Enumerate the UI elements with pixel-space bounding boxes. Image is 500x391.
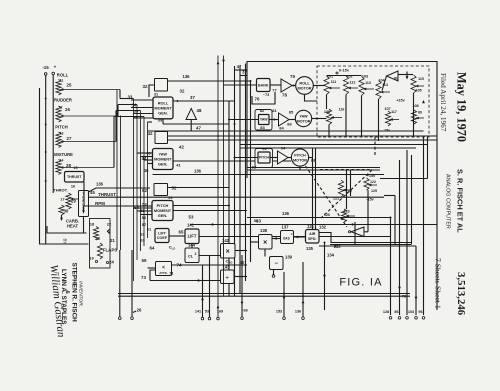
svg-text:48: 48 bbox=[197, 108, 202, 113]
wire long vertical 218 bbox=[217, 56, 219, 318]
wire roll mg input 35 bbox=[134, 113, 154, 115]
box oas 137 bbox=[281, 231, 294, 244]
svg-text:83: 83 bbox=[260, 125, 265, 130]
svg-text:SPD.: SPD. bbox=[308, 237, 317, 241]
wire pmg inputs bbox=[134, 207, 153, 209]
wire center bus 2 bbox=[234, 66, 236, 296]
svg-text:136: 136 bbox=[96, 182, 104, 187]
wire wiper 124 bbox=[343, 189, 352, 191]
svg-text:2: 2 bbox=[195, 252, 197, 256]
svg-text:107: 107 bbox=[384, 107, 390, 111]
wire 32 feedback bbox=[148, 91, 150, 97]
svg-text:53: 53 bbox=[142, 202, 147, 207]
wire roll mg input 36 bbox=[134, 117, 154, 119]
svg-text:0-15v: 0-15v bbox=[339, 68, 350, 73]
box attack limiter 71 bbox=[156, 262, 172, 276]
motor pitch 95 bbox=[291, 149, 308, 166]
wire 47 top stub bbox=[235, 69, 248, 71]
svg-text:THRUST: THRUST bbox=[67, 175, 82, 179]
svg-text:71: 71 bbox=[169, 271, 174, 276]
wire bus y244 right bbox=[330, 244, 412, 246]
svg-text:OAS: OAS bbox=[283, 237, 290, 241]
wire right bus 8 bbox=[427, 137, 429, 179]
box pitch servo enclosure bbox=[255, 149, 273, 168]
svg-text:78: 78 bbox=[282, 93, 287, 98]
svg-text:136: 136 bbox=[295, 310, 301, 314]
svg-text:103: 103 bbox=[408, 310, 414, 314]
svg-text:56: 56 bbox=[142, 215, 147, 220]
terminal t136 bbox=[302, 317, 305, 320]
svg-text:RUDDER: RUDDER bbox=[54, 98, 72, 103]
terminal tr1 bbox=[389, 317, 392, 320]
svg-text:139: 139 bbox=[285, 255, 293, 260]
svg-text:ATTK.: ATTK. bbox=[159, 271, 168, 275]
resistor flaps pot 23 bbox=[93, 227, 98, 241]
svg-text:68: 68 bbox=[243, 309, 247, 313]
box lift coef 64 bbox=[155, 229, 169, 243]
wire wiper 106 bbox=[331, 117, 342, 119]
wire pot106 bottom drop bbox=[328, 125, 330, 138]
box thrust 15 bbox=[65, 172, 85, 183]
svg-text:134: 134 bbox=[327, 253, 335, 258]
wire airspd to oas bbox=[294, 236, 306, 238]
box pitch 91 bbox=[258, 152, 270, 163]
box feedback 42 bbox=[155, 132, 168, 144]
wire pot104 bottom drop bbox=[378, 99, 380, 141]
wire 47 bus bbox=[148, 130, 424, 132]
svg-text:×: × bbox=[226, 249, 230, 256]
svg-text:111: 111 bbox=[331, 80, 337, 84]
box roll moment gen bbox=[153, 97, 173, 119]
terminal under 139 bbox=[272, 275, 275, 278]
wire lower right vertical a bbox=[346, 170, 348, 209]
resistor pot 103 bbox=[359, 77, 364, 96]
svg-text:31: 31 bbox=[154, 93, 158, 97]
wire 136 mid bus bbox=[153, 174, 385, 176]
wire dashed diagonal 1 bbox=[306, 166, 348, 227]
wire bus y137 bbox=[168, 135, 438, 137]
wire yaw mg input d bbox=[148, 163, 153, 165]
wire bus y144 bbox=[240, 144, 428, 146]
wire pot30 ground arrow bbox=[61, 215, 63, 219]
svg-text:YAW: YAW bbox=[299, 115, 308, 119]
wire 136 terminal line bbox=[302, 262, 304, 317]
svg-text:LIFT: LIFT bbox=[188, 234, 197, 239]
box pitch moment gen bbox=[152, 201, 173, 221]
wire yaw mg input a bbox=[137, 152, 153, 154]
svg-text:123: 123 bbox=[343, 210, 349, 214]
svg-text:106: 106 bbox=[324, 110, 330, 114]
motor roll 79 bbox=[296, 77, 314, 95]
box yaw 82 bbox=[259, 115, 270, 125]
svg-text:PITCH: PITCH bbox=[259, 156, 270, 160]
svg-text:153: 153 bbox=[276, 310, 282, 314]
box right outer enclosure bbox=[247, 62, 437, 311]
wire 136 top bus bbox=[168, 80, 251, 82]
svg-text:THRUST: THRUST bbox=[98, 192, 116, 197]
svg-text:105: 105 bbox=[415, 89, 421, 93]
wire wiper 101 bbox=[329, 87, 340, 89]
wire 133 line bbox=[319, 245, 416, 247]
wire yaw mg input c bbox=[144, 159, 153, 161]
wire control vertical b bbox=[120, 116, 122, 251]
wire throttle wiper bbox=[71, 198, 79, 200]
svg-text:STEPHEN R. FISCH: STEPHEN R. FISCH bbox=[71, 263, 78, 323]
svg-text:GEN.: GEN. bbox=[158, 110, 168, 115]
wire bank input bbox=[224, 84, 257, 86]
svg-text:MOTOR: MOTOR bbox=[293, 158, 307, 162]
svg-text:86: 86 bbox=[287, 122, 292, 127]
svg-text:84: 84 bbox=[279, 126, 284, 131]
svg-text:116: 116 bbox=[339, 108, 345, 112]
svg-text:53: 53 bbox=[254, 218, 259, 223]
svg-text:47: 47 bbox=[196, 126, 201, 131]
svg-text:25: 25 bbox=[67, 83, 72, 88]
svg-text:52: 52 bbox=[142, 188, 147, 193]
box lift 141 bbox=[185, 229, 199, 244]
svg-text:26: 26 bbox=[65, 107, 70, 112]
wire roll motor bottom stub bbox=[305, 94, 318, 101]
svg-text:42: 42 bbox=[179, 145, 184, 150]
op-amp 48 triangle up bbox=[186, 109, 197, 120]
wire roll mg bottom bbox=[162, 119, 164, 124]
wire center bus 1 bbox=[228, 101, 230, 296]
wire bottom bus 2 bbox=[118, 295, 410, 297]
wire right supply rail bbox=[52, 75, 54, 193]
svg-text:113: 113 bbox=[365, 81, 371, 85]
wire pitch motor dashed start stub bbox=[299, 166, 301, 170]
svg-text:17: 17 bbox=[60, 198, 64, 202]
resistor pot 102 bbox=[343, 76, 348, 95]
svg-text:138: 138 bbox=[260, 228, 268, 233]
svg-text:115: 115 bbox=[418, 77, 424, 81]
svg-text:22: 22 bbox=[107, 222, 112, 227]
svg-text:125: 125 bbox=[371, 189, 377, 193]
wire arrow down symbol bbox=[406, 72, 408, 79]
svg-text:46: 46 bbox=[144, 168, 149, 173]
terminal t153 bbox=[283, 317, 286, 320]
terminal t26a bbox=[119, 317, 122, 320]
wire control vertical a bbox=[116, 90, 118, 250]
svg-text:53: 53 bbox=[205, 310, 209, 314]
svg-text:+: + bbox=[54, 65, 57, 70]
svg-text:MOTOR: MOTOR bbox=[296, 119, 310, 123]
wire right bus 3 bbox=[399, 160, 401, 315]
wire 53 bus line bbox=[190, 224, 437, 226]
svg-text:94: 94 bbox=[281, 146, 286, 151]
wire bus y170 bbox=[247, 169, 380, 171]
svg-text:26: 26 bbox=[137, 308, 142, 313]
wire right bus 4 bbox=[406, 150, 408, 315]
svg-text:36: 36 bbox=[134, 115, 139, 120]
svg-text:128: 128 bbox=[383, 310, 389, 314]
svg-text:39: 39 bbox=[158, 118, 163, 123]
wire roll motor to pots bbox=[313, 85, 325, 87]
op-amp 94 bbox=[278, 151, 289, 164]
wire bus y178 bbox=[380, 178, 428, 180]
wire mixture wiper to bus bbox=[61, 167, 114, 169]
resistor flaps pot 19 bbox=[97, 243, 102, 259]
resistor pot 30 bbox=[59, 205, 64, 215]
wire bank to amp bbox=[270, 84, 281, 86]
terminal flaps a bbox=[95, 260, 97, 262]
svg-text:CL: CL bbox=[188, 254, 194, 259]
svg-text:92: 92 bbox=[252, 165, 257, 170]
wire lift coef out bbox=[169, 235, 185, 237]
svg-text:73: 73 bbox=[141, 275, 146, 280]
svg-text:89: 89 bbox=[418, 111, 422, 115]
wire 136 line bbox=[89, 188, 151, 192]
op-amp output left bbox=[351, 227, 364, 237]
svg-text:3,513,246: 3,513,246 bbox=[455, 272, 467, 316]
svg-text:MIXTURE: MIXTURE bbox=[54, 152, 73, 157]
wire dashed top edge bbox=[320, 169, 371, 171]
wire roll mg input 34 bbox=[131, 107, 153, 109]
resistor pot 105 bbox=[411, 75, 416, 93]
wire right bus 6 bbox=[415, 246, 417, 315]
svg-text:ROLL: ROLL bbox=[57, 73, 69, 78]
svg-text:LIFT: LIFT bbox=[158, 231, 167, 235]
svg-text:BY: BY bbox=[63, 239, 68, 245]
wire pitch motor right stub bbox=[309, 157, 313, 159]
wire bank loop 76 bbox=[252, 92, 275, 104]
wire flaps wiper 21 bbox=[107, 232, 110, 235]
svg-text:-15v: -15v bbox=[383, 129, 391, 133]
wire attk input bbox=[148, 267, 156, 269]
svg-text:23: 23 bbox=[95, 236, 100, 241]
svg-text:ROLL: ROLL bbox=[299, 82, 310, 86]
svg-text:~73: ~73 bbox=[263, 93, 269, 97]
svg-text:91: 91 bbox=[262, 146, 267, 151]
wire lift out bbox=[199, 236, 391, 238]
wire pot bank top rail bbox=[327, 75, 362, 77]
wire wiper 104 bbox=[381, 91, 390, 93]
wire lift to cl2 bbox=[191, 244, 193, 249]
wire wiper 108 bbox=[416, 117, 424, 119]
wire bus branch 47 top bbox=[148, 121, 153, 123]
svg-text:126: 126 bbox=[324, 213, 330, 217]
wire pmg out bbox=[173, 210, 247, 212]
op-amp 84 bbox=[279, 113, 290, 126]
wire attk out 74 bbox=[172, 264, 248, 266]
svg-text:BANK: BANK bbox=[258, 83, 269, 87]
svg-text:GEN.: GEN. bbox=[158, 161, 168, 166]
wire bus y141 bbox=[168, 139, 438, 141]
wire thrust45 down bbox=[83, 217, 85, 234]
box bank 73 bbox=[257, 79, 271, 92]
wire pot105 bottom drop bbox=[413, 93, 415, 138]
wire amp99 input diagonal bbox=[382, 76, 387, 91]
box dashed pot bank bbox=[317, 66, 429, 137]
svg-text:14: 14 bbox=[60, 159, 64, 163]
wire yaw motor right stub bbox=[312, 118, 327, 120]
svg-text:136: 136 bbox=[194, 169, 202, 174]
box cl2 144 bbox=[185, 248, 199, 263]
terminal tr4 bbox=[415, 317, 418, 320]
wire right bus 5 bbox=[411, 155, 413, 244]
svg-text:62: 62 bbox=[140, 232, 145, 237]
wire 52 box out bbox=[168, 187, 230, 189]
terminal t141 bbox=[201, 317, 204, 320]
svg-text:65: 65 bbox=[179, 230, 184, 235]
svg-text:FIG. IA: FIG. IA bbox=[339, 277, 382, 289]
wire lower right vertical c bbox=[354, 222, 356, 245]
wire thrust bus bbox=[89, 196, 385, 198]
terminal t26b bbox=[131, 317, 134, 320]
wire wiper 123 bbox=[346, 215, 355, 217]
box thrust servo 45 vertical bbox=[79, 191, 89, 217]
svg-text:76: 76 bbox=[255, 97, 260, 102]
wire yaw input bbox=[229, 119, 259, 121]
wire 138 down bbox=[264, 249, 266, 257]
svg-text:136: 136 bbox=[282, 211, 290, 216]
wire amp to roll motor bbox=[292, 85, 296, 87]
resistor pot 107 bbox=[385, 111, 390, 126]
svg-text:117: 117 bbox=[391, 110, 397, 114]
svg-text:16: 16 bbox=[71, 185, 75, 189]
wire vertical pair a bbox=[312, 148, 314, 230]
svg-text:THROT.: THROT. bbox=[53, 188, 67, 193]
svg-text:×: × bbox=[263, 240, 267, 247]
svg-text:18: 18 bbox=[90, 222, 95, 227]
terminal right rail bbox=[52, 72, 55, 75]
wire 37 top stub bbox=[240, 75, 247, 77]
svg-text:May 19, 1970: May 19, 1970 bbox=[455, 72, 469, 142]
wire 134 vertical bbox=[324, 243, 326, 311]
svg-text:S. R. FISCH ET AL: S. R. FISCH ET AL bbox=[456, 169, 465, 233]
svg-text:85: 85 bbox=[289, 110, 294, 115]
wire pitch to amp bbox=[270, 157, 278, 159]
wire pmg out 53 bbox=[173, 205, 229, 207]
wire right bus 1 bbox=[390, 225, 392, 315]
svg-text:19: 19 bbox=[89, 256, 94, 261]
wire center bus 4 bbox=[245, 64, 247, 282]
svg-text:+15v: +15v bbox=[367, 174, 376, 178]
terminal tr3 bbox=[406, 317, 409, 320]
svg-text:27: 27 bbox=[67, 136, 72, 141]
resistor pot 124 bbox=[338, 180, 343, 197]
svg-text:PITCH: PITCH bbox=[55, 125, 68, 130]
wire left terminal lines bbox=[119, 250, 121, 317]
op-amp 99 left bbox=[387, 71, 399, 81]
wire bus y148 bbox=[240, 147, 416, 149]
svg-text:37: 37 bbox=[190, 95, 195, 100]
wire long vertical 223 bbox=[223, 56, 225, 297]
svg-text:RPM: RPM bbox=[95, 201, 105, 206]
terminal tr2 bbox=[398, 317, 401, 320]
wire left supply rail bbox=[45, 75, 47, 244]
box subtractor 139 bbox=[270, 257, 284, 270]
svg-text:41: 41 bbox=[176, 163, 181, 168]
box feedback 32 bbox=[155, 79, 168, 92]
wire dashed diagonal 2 bbox=[321, 170, 372, 218]
svg-text:135: 135 bbox=[306, 246, 314, 251]
junction dots various bbox=[234, 123, 236, 125]
svg-text:7 Sheets-Sheet 1: 7 Sheets-Sheet 1 bbox=[434, 258, 443, 309]
wire bus y167 bbox=[247, 167, 380, 169]
wire x142 out stub bbox=[235, 250, 247, 252]
svg-text:PITCH: PITCH bbox=[294, 154, 306, 158]
svg-text:77: 77 bbox=[272, 88, 277, 93]
wire wiper 102 bbox=[348, 87, 358, 89]
svg-text:−: − bbox=[274, 261, 278, 267]
svg-text:136: 136 bbox=[183, 74, 191, 79]
wire 139 stub bbox=[273, 270, 275, 275]
svg-text:44: 44 bbox=[142, 156, 147, 161]
svg-text:YAW: YAW bbox=[260, 118, 268, 122]
svg-text:141: 141 bbox=[195, 310, 201, 314]
wire yaw mg input b bbox=[141, 156, 153, 158]
wire wiper 107 bbox=[390, 119, 399, 121]
terminal left rail bbox=[44, 73, 47, 76]
box left outer enclosure bbox=[40, 88, 89, 244]
terminal t53 bbox=[208, 317, 211, 320]
terminal flaps b bbox=[106, 261, 108, 263]
svg-text:61: 61 bbox=[147, 227, 152, 232]
wire thrust box arrow bbox=[83, 206, 85, 212]
wire 136 center line bbox=[247, 218, 391, 226]
wire pitch input bbox=[235, 157, 259, 159]
junction dots left rail bbox=[45, 98, 47, 100]
svg-text:103: 103 bbox=[362, 75, 368, 79]
svg-text:86: 86 bbox=[394, 310, 398, 314]
svg-text:24: 24 bbox=[109, 260, 114, 265]
wire wiper 103 bbox=[364, 88, 374, 90]
wire dashed right edge bbox=[374, 137, 376, 155]
wire right bus 7 bbox=[423, 137, 425, 315]
box multiplier 142 bbox=[221, 244, 236, 259]
svg-text:+15v: +15v bbox=[396, 99, 405, 103]
wire wiper 105 bbox=[416, 85, 424, 87]
svg-text:53: 53 bbox=[189, 215, 194, 220]
svg-text:30: 30 bbox=[64, 209, 69, 214]
svg-text:13: 13 bbox=[60, 132, 64, 136]
box air speed 131 bbox=[306, 230, 320, 244]
svg-text:32: 32 bbox=[180, 89, 185, 94]
svg-text:11: 11 bbox=[60, 79, 64, 83]
box flaps enclosure bbox=[90, 219, 111, 269]
svg-text:122: 122 bbox=[370, 180, 376, 184]
wire wiper 122 bbox=[369, 184, 377, 186]
svg-text:96: 96 bbox=[418, 310, 422, 314]
terminal 0-15v bbox=[336, 72, 338, 74]
svg-text:131: 131 bbox=[307, 224, 315, 229]
resistor pot 123 bbox=[341, 209, 346, 222]
wire oas to 138 bbox=[272, 238, 281, 240]
box yaw moment gen bbox=[153, 149, 174, 170]
wire yaw mg out bbox=[173, 160, 291, 162]
svg-text:FLAPS: FLAPS bbox=[103, 248, 117, 253]
svg-text:99: 99 bbox=[394, 76, 399, 81]
svg-text:81: 81 bbox=[272, 108, 277, 113]
op-amp 78 bbox=[281, 79, 292, 92]
wire pot102 bottom drop bbox=[345, 95, 347, 138]
svg-text:51: 51 bbox=[168, 195, 173, 200]
wire pot101 bottom drop bbox=[326, 95, 328, 110]
terminal t68 bbox=[241, 317, 244, 320]
svg-text:COEF: COEF bbox=[157, 236, 168, 240]
svg-text:ANALOG COMPUTER: ANALOG COMPUTER bbox=[445, 174, 451, 229]
wire yaw to amp bbox=[269, 119, 278, 121]
wire amp48 in bbox=[190, 120, 192, 131]
svg-text:59: 59 bbox=[142, 258, 147, 263]
wire pitch amp to motor bbox=[288, 157, 291, 159]
svg-text:47: 47 bbox=[237, 64, 242, 69]
wire right bus 2 bbox=[384, 195, 395, 197]
wire rudder wiper to bus bbox=[61, 115, 118, 117]
terminal tr5 bbox=[422, 317, 425, 320]
svg-text:34: 34 bbox=[132, 103, 137, 108]
